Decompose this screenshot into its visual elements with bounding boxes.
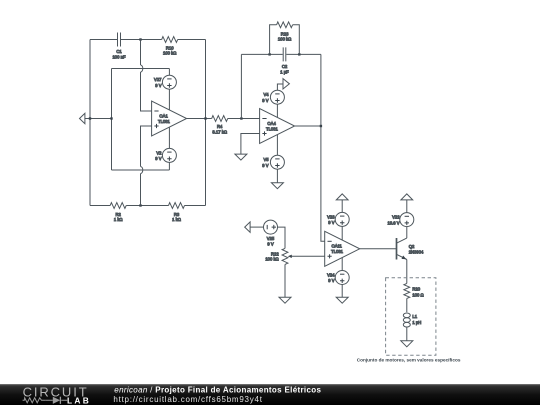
junction OA1 output node [204, 117, 206, 119]
node A junction [89, 117, 91, 119]
wire C1 to R10 [121, 39, 162, 41]
svg-text:V24: V24 [327, 273, 335, 278]
wire feedback right vertical down to OA11 minus [321, 54, 325, 241]
logo resistor zigzag [23, 398, 46, 403]
resistor R23 [277, 22, 293, 42]
wire R2 to R3 [126, 205, 168, 207]
wire bottom left [90, 205, 110, 207]
voltage source V4 [262, 84, 284, 117]
wire OA1 plus down to R2/R3 (with hop) [141, 126, 152, 206]
logo diode [46, 397, 67, 404]
transistor Q2 [397, 238, 425, 260]
node flag V4 [283, 79, 289, 89]
svg-text:9 V: 9 V [328, 220, 334, 225]
svg-text:V27: V27 [154, 77, 162, 82]
svg-text:100 nF: 100 nF [112, 54, 125, 59]
svg-text:100 kΩ: 100 kΩ [163, 51, 176, 56]
wire Q2 collector up [406, 227, 408, 239]
wire OA1 output [187, 118, 212, 120]
wire R22 wiper to OA11 plus [292, 255, 325, 257]
svg-text:19.6 V: 19.6 V [387, 220, 399, 225]
wire left vertical [89, 40, 91, 206]
op-amp OA11 [325, 231, 360, 266]
svg-text:1 µH: 1 µH [412, 320, 421, 325]
voltage source V24 [327, 258, 349, 298]
wire flag to node [85, 118, 90, 120]
junction inner node [110, 117, 112, 119]
junction C1/R10 node [139, 38, 141, 40]
ground L1 [401, 341, 413, 347]
svg-text:8.17 kΩ: 8.17 kΩ [212, 129, 227, 134]
op-amp OA4 [260, 109, 295, 144]
svg-text:100 Ω: 100 Ω [412, 292, 423, 297]
svg-text:OA4: OA4 [267, 121, 276, 126]
svg-text:100 kΩ: 100 kΩ [265, 257, 278, 262]
svg-text:1 kΩ: 1 kΩ [114, 217, 123, 222]
wire L1 to ground [406, 327, 408, 341]
voltage source V5 [262, 135, 284, 183]
wire inner vertical [111, 69, 113, 171]
svg-text:L1: L1 [412, 314, 417, 319]
footer bar [0, 384, 540, 405]
junction R23 left node [268, 53, 270, 55]
wire V25 to R22 top [278, 227, 286, 248]
wire feedback left vertical [240, 54, 242, 118]
wire R10 to right vertical [178, 39, 206, 41]
wire OA4 plus to ground [241, 134, 260, 155]
resistor R3 [169, 203, 185, 223]
wire R23 branch [270, 25, 300, 55]
junction R2/R3 node [139, 204, 141, 206]
ground R22 [279, 297, 291, 303]
svg-text:R20: R20 [412, 287, 420, 292]
junction R23 right node [298, 53, 300, 55]
op-amp OA1 [152, 101, 187, 136]
wire V2 return row [112, 169, 170, 171]
resistor R4 [212, 116, 228, 135]
power flag arrow V23 [336, 194, 348, 213]
wire R20 to L1 [406, 298, 408, 312]
wire feedback top row [241, 53, 321, 55]
svg-text:TL081: TL081 [266, 126, 279, 131]
wire flag to V25 [250, 226, 263, 228]
capacitor C1 [112, 33, 125, 60]
input flag IN2 [245, 222, 250, 232]
wire OA11 output to Q2 base [360, 248, 396, 250]
svg-text:V4: V4 [263, 92, 269, 97]
capacitor C2 [280, 47, 289, 74]
svg-text:V23: V23 [327, 214, 335, 219]
wire top left [90, 39, 117, 41]
wire right vertical [205, 40, 207, 206]
dashed box motor assembly [386, 278, 436, 355]
svg-text:OA11: OA11 [331, 244, 342, 249]
svg-text:enricoan / Projeto Final de Ac: enricoan / Projeto Final de Acionamentos… [114, 386, 321, 395]
svg-text:9 V: 9 V [262, 98, 268, 103]
voltage source V23 [327, 212, 349, 240]
svg-text:V2: V2 [156, 150, 162, 155]
svg-text:9 V: 9 V [155, 83, 161, 88]
svg-text:V5: V5 [263, 157, 269, 162]
wire OA4 output [295, 125, 321, 127]
svg-text:Q2: Q2 [409, 244, 415, 249]
resistor R20 [404, 283, 424, 298]
svg-text:LAB: LAB [67, 395, 90, 405]
svg-text:TL081: TL081 [158, 119, 171, 124]
wire R3 to right vertical [185, 205, 206, 207]
input flag IN1 [80, 113, 85, 123]
voltage source V25 (horizontal) [264, 220, 278, 246]
resistor R10 [162, 37, 178, 56]
junction R4/feedback node [240, 117, 242, 119]
svg-text:Conjunto de motores, sem valor: Conjunto de motores, sem valores específ… [357, 358, 461, 363]
voltage source V27 [154, 69, 176, 110]
wire R22 bottom to ground [284, 264, 286, 297]
svg-text:OA1: OA1 [159, 113, 168, 118]
resistor R2 [110, 203, 126, 223]
svg-text:2N3904: 2N3904 [409, 249, 424, 254]
potentiometer R22 [265, 248, 291, 264]
ground OA4 plus [235, 154, 247, 160]
svg-text:9 V: 9 V [262, 163, 268, 168]
svg-text:9 V: 9 V [155, 156, 161, 161]
wire R4 to OA4 minus [228, 118, 260, 120]
svg-text:V22: V22 [392, 215, 400, 220]
svg-text:9 V: 9 V [267, 241, 273, 246]
svg-text:9 V: 9 V [328, 278, 334, 283]
wire feedback vertical to OA1 minus (with hop) [141, 40, 152, 112]
ground V5 [271, 183, 283, 189]
wire Q2 emitter down [406, 260, 408, 284]
voltage source V22 [387, 213, 413, 227]
voltage source V2 [155, 127, 176, 170]
wire V27 supply row [112, 68, 170, 70]
power flag arrow V22 [401, 194, 413, 213]
svg-text:1 kΩ: 1 kΩ [172, 217, 181, 222]
svg-text:100 kΩ: 100 kΩ [278, 37, 291, 42]
svg-text:TL081: TL081 [331, 249, 344, 254]
wire input row to inner vertical [90, 118, 112, 120]
svg-text:1 µF: 1 µF [280, 69, 289, 74]
inductor L1 [403, 313, 421, 327]
junction OA4 output node [320, 125, 322, 127]
svg-text:http://circuitlab.com/cffs65bm: http://circuitlab.com/cffs65bm93y4t [113, 395, 262, 404]
ground V24 [336, 297, 348, 303]
